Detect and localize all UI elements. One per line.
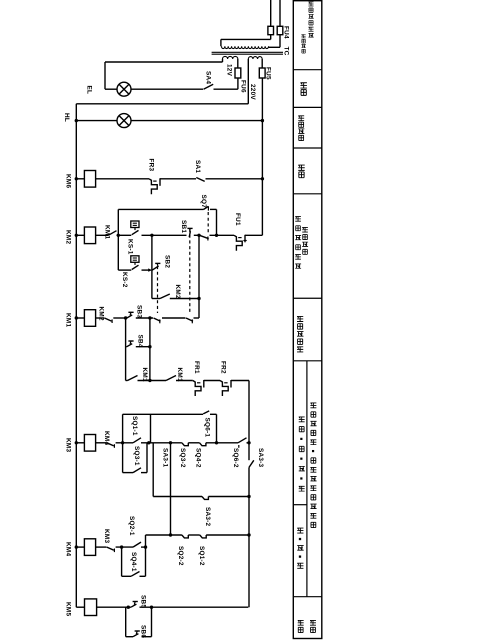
- svg-text:220V: 220V: [249, 84, 256, 100]
- svg-text:KM4: KM4: [65, 542, 72, 556]
- svg-text:SQ3-2: SQ3-2: [179, 448, 186, 468]
- svg-text:SB1: SB1: [180, 220, 187, 233]
- svg-text:SA3-1: SA3-1: [162, 448, 169, 468]
- svg-text:FU5: FU5: [265, 67, 272, 80]
- svg-text:HL: HL: [63, 113, 70, 122]
- svg-text:SQ6-2: SQ6-2: [232, 448, 239, 468]
- svg-text:SB4: SB4: [137, 335, 144, 348]
- svg-text:FU4: FU4: [283, 26, 290, 39]
- svg-text:SQ2-2: SQ2-2: [177, 546, 184, 566]
- svg-text:SA3-2: SA3-2: [204, 507, 211, 527]
- svg-text:SQ7: SQ7: [200, 195, 207, 209]
- svg-text:FR3: FR3: [148, 159, 155, 172]
- svg-text:SB5: SB5: [140, 595, 147, 608]
- svg-text:KM1: KM1: [104, 225, 111, 239]
- svg-text:SA3-3: SA3-3: [257, 448, 264, 468]
- svg-text:KM3: KM3: [103, 529, 110, 543]
- svg-text:SA1: SA1: [194, 160, 201, 173]
- svg-text:FU1: FU1: [234, 213, 241, 226]
- svg-text:12V: 12V: [226, 64, 233, 77]
- svg-text:KS-2: KS-2: [121, 272, 128, 288]
- svg-text:SQ1-2: SQ1-2: [198, 546, 205, 566]
- svg-text:SB6: SB6: [140, 625, 147, 638]
- svg-text:KM6: KM6: [65, 174, 72, 188]
- svg-text:FR2: FR2: [220, 361, 227, 374]
- svg-text:SQ4-2: SQ4-2: [195, 448, 202, 468]
- svg-text:SQ6-1: SQ6-1: [204, 418, 211, 438]
- svg-text:KM2: KM2: [98, 307, 105, 321]
- svg-text:FR1: FR1: [193, 361, 200, 374]
- svg-text:KM2: KM2: [65, 230, 72, 244]
- svg-text:SA4: SA4: [205, 71, 212, 84]
- svg-text:KM3: KM3: [65, 438, 72, 452]
- svg-text:SQ3-1: SQ3-1: [133, 446, 140, 466]
- svg-text:SB3: SB3: [136, 305, 143, 318]
- svg-text:EL: EL: [86, 86, 93, 95]
- svg-text:KM1: KM1: [65, 313, 72, 327]
- svg-text:KM2: KM2: [174, 285, 181, 299]
- svg-text:FU6: FU6: [240, 80, 247, 93]
- svg-text:SQ4-1: SQ4-1: [130, 552, 137, 572]
- svg-text:KS-1: KS-1: [127, 239, 134, 255]
- svg-text:SQ2-1: SQ2-1: [128, 516, 135, 536]
- svg-text:KM5: KM5: [65, 602, 72, 616]
- svg-text:KM1: KM1: [141, 368, 148, 382]
- svg-text:KM1: KM1: [176, 368, 183, 382]
- svg-text:TC: TC: [283, 47, 290, 56]
- svg-text:KM4: KM4: [103, 431, 110, 445]
- svg-text:SB2: SB2: [164, 255, 171, 268]
- svg-text:SQ1-1: SQ1-1: [131, 416, 138, 436]
